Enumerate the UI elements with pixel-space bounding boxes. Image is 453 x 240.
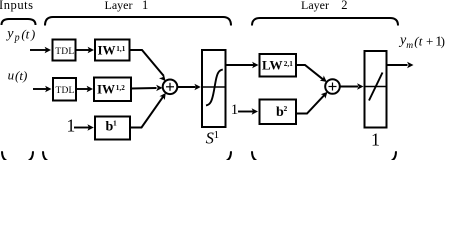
svg-text:2: 2	[341, 0, 347, 12]
svg-text:1: 1	[231, 102, 239, 118]
wire linear to output	[387, 64, 408, 66]
block sigmoid transfer fn	[202, 50, 226, 127]
box TDL 2	[53, 78, 76, 101]
svg-text:Layer: Layer	[105, 0, 133, 12]
wire 1 to b2	[238, 111, 253, 113]
wire b1 to sum1	[130, 97, 163, 128]
box IW 1,2	[94, 78, 131, 102]
svg-text:1: 1	[371, 130, 380, 150]
svg-text:1: 1	[113, 119, 117, 128]
svg-text:y: y	[5, 27, 14, 42]
sum junction 1	[163, 80, 178, 95]
svg-text:1: 1	[214, 129, 220, 141]
svg-text:+: +	[426, 34, 433, 49]
svg-text:t: t	[419, 34, 423, 49]
svg-text:2: 2	[284, 104, 288, 113]
svg-text:m: m	[406, 41, 413, 51]
wire TDL1 to IW11	[76, 49, 90, 51]
svg-text:TDL: TDL	[55, 47, 74, 57]
wire input y_p	[30, 49, 46, 51]
sum junction 2	[325, 79, 340, 94]
block linear transfer fn	[365, 51, 387, 128]
wire IW11 to sum1	[130, 50, 164, 76]
wire b2 to sum2	[296, 95, 325, 114]
wire sigmoid to LW21	[226, 64, 254, 66]
box LW 2,1	[260, 54, 297, 77]
box b1	[95, 117, 130, 140]
svg-text:2,1: 2,1	[284, 60, 293, 68]
wire sum1 to sigmoid	[178, 86, 196, 88]
wire TDL2 to IW12	[76, 88, 88, 90]
svg-text:): )	[30, 27, 35, 42]
svg-text:IW: IW	[97, 82, 115, 97]
brace over Inputs	[2, 19, 36, 25]
box TDL 1	[53, 40, 76, 61]
svg-text:(t): (t)	[15, 68, 27, 83]
wire 1 to b1	[74, 127, 89, 129]
svg-text:TDL: TDL	[55, 86, 74, 96]
svg-text:IW: IW	[98, 43, 116, 58]
svg-text:Layer: Layer	[301, 0, 329, 12]
svg-text:LW: LW	[262, 58, 282, 73]
brace under Layer 2	[252, 151, 396, 162]
wire LW21 to sum2	[296, 65, 324, 80]
wire IW12 to sum1	[131, 87, 157, 90]
box b2	[260, 100, 297, 125]
svg-text:p: p	[14, 33, 20, 44]
wire sum2 to linear	[340, 86, 358, 88]
svg-text:t: t	[26, 27, 30, 42]
svg-text:1,2: 1,2	[116, 84, 125, 92]
wire input u	[33, 88, 47, 90]
brace over Layer 1	[45, 17, 231, 26]
svg-text:u: u	[8, 68, 15, 83]
svg-text:): )	[441, 34, 445, 49]
svg-text:Inputs: Inputs	[0, 0, 34, 12]
box IW 1,1	[95, 40, 130, 61]
svg-text:1: 1	[67, 116, 76, 136]
svg-text:1: 1	[142, 0, 148, 12]
svg-text:1,1: 1,1	[116, 45, 125, 53]
brace under Inputs	[2, 151, 33, 162]
brace over Layer 2	[252, 18, 398, 26]
brace under Layer 1	[43, 151, 231, 162]
